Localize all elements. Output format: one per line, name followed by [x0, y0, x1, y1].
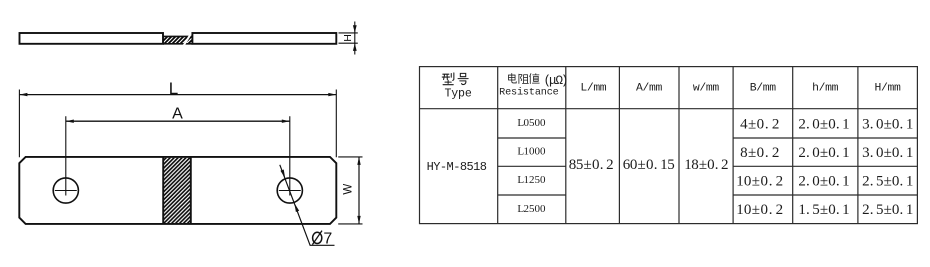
dimension L extension lines: [19, 90, 336, 158]
svg-text:4±0.2: 4±0.2: [740, 116, 779, 132]
front view hatched band (resistive element): [163, 157, 191, 223]
svg-text:HY-M-8518: HY-M-8518: [427, 160, 487, 174]
dimension W line: [358, 157, 360, 224]
hole diameter leader line: [280, 165, 335, 246]
svg-text:A: A: [172, 105, 183, 122]
svg-text:w/mm: w/mm: [693, 83, 719, 95]
svg-text:h/mm: h/mm: [812, 83, 838, 95]
front view body (chamfered rectangle): [19, 157, 336, 224]
svg-text:L/mm: L/mm: [580, 83, 606, 95]
svg-text:Type: Type: [444, 87, 471, 100]
svg-text:2.0±0.1: 2.0±0.1: [798, 116, 849, 132]
header cell: 电阻值 (Resistance value): [508, 73, 539, 83]
svg-text:A/mm: A/mm: [636, 83, 662, 95]
svg-text:85±0.2: 85±0.2: [569, 157, 614, 173]
svg-text:2.0±0.1: 2.0±0.1: [798, 174, 849, 190]
leader arrow upper (points into circle): [280, 170, 285, 179]
left hole: [53, 178, 78, 203]
svg-text:2.0±0.1: 2.0±0.1: [798, 145, 849, 161]
svg-text:3.0±0.1: 3.0±0.1: [862, 116, 913, 132]
diameter symbol: [312, 231, 322, 245]
left hole center cross: [55, 190, 77, 192]
A extension redraw over hole: [65, 158, 67, 196]
glyph 电: [508, 73, 516, 82]
dimension A line: [66, 120, 290, 122]
svg-text:L0500: L0500: [517, 117, 546, 129]
glyph 型: [442, 73, 454, 85]
leader arrow lower (points into circle): [294, 203, 299, 212]
svg-text:8±0.2: 8±0.2: [740, 145, 779, 161]
svg-text:L1000: L1000: [517, 146, 546, 158]
svg-text:B/mm: B/mm: [750, 83, 776, 95]
dimension A extension lines (pass through hole centers): [66, 116, 290, 195]
svg-text:1.5±0.1: 1.5±0.1: [798, 202, 849, 218]
svg-text:L: L: [169, 79, 178, 98]
svg-text:3.0±0.1: 3.0±0.1: [862, 145, 913, 161]
svg-text:60±0.15: 60±0.15: [623, 157, 675, 173]
svg-text:L2500: L2500: [517, 203, 546, 215]
side view resistive element (hatched, thinner): [163, 36, 192, 43]
svg-text:7: 7: [323, 230, 332, 247]
side view right terminal bar: [192, 33, 336, 44]
dimension L line: [19, 94, 336, 96]
svg-text:10±0.2: 10±0.2: [736, 202, 783, 218]
table grid: [420, 67, 918, 224]
right hole: [277, 178, 302, 203]
glyph 值: [530, 74, 540, 84]
break gap in hatched element: [183, 35, 192, 45]
glyph 阻: [519, 74, 528, 83]
right hole center cross: [279, 190, 301, 192]
svg-text:L1250: L1250: [517, 174, 546, 186]
glyph 号: [458, 73, 468, 84]
svg-text:H/mm: H/mm: [875, 83, 901, 95]
svg-text:10±0.2: 10±0.2: [736, 174, 783, 190]
side view left terminal bar: [20, 33, 164, 44]
header cell: 型号 (Model): [442, 73, 468, 85]
svg-text:(μΩ): (μΩ): [544, 74, 569, 88]
dimension H extension lines: [339, 33, 358, 43]
svg-text:2.5±0.1: 2.5±0.1: [862, 202, 913, 218]
svg-text:W: W: [343, 184, 355, 195]
dimension W extension lines: [338, 157, 362, 224]
svg-text:H: H: [342, 34, 354, 42]
dimension H line with outside arrows: [354, 22, 356, 55]
svg-text:18±0.2: 18±0.2: [684, 157, 728, 173]
svg-text:Resistance: Resistance: [499, 87, 559, 99]
svg-text:2.5±0.1: 2.5±0.1: [862, 174, 913, 190]
